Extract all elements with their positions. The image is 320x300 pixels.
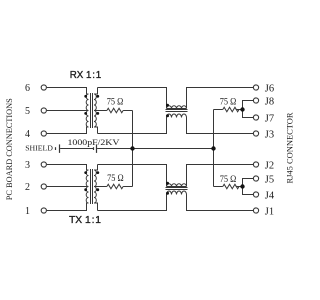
wire shield to capacitor C1 [60,148,93,150]
svg-text:J1: J1 [265,207,274,218]
choke L2 core [166,188,188,190]
shield pin mark [55,147,57,150]
transformer T2 secondary winding [94,170,96,203]
wire bus V2 to R4 [214,186,223,188]
resistor R1 75 ohm [107,108,123,113]
resistor R2 75 ohm [107,184,123,189]
svg-text:4: 4 [25,129,30,140]
polarity dot T1 secondary upper [96,95,99,98]
polarity dot T1 primary lower [84,112,87,115]
svg-text:75 Ω: 75 Ω [107,98,124,108]
wire bus V2 to R3 [214,109,223,111]
transformer T1 primary winding [86,94,88,127]
polarity dot choke L1 top [166,104,169,107]
node 3 (PC board pin 3 terminal) [41,162,46,167]
choke L1 bottom winding [167,114,187,117]
wire pin 4 to T1 primary bottom [47,127,89,134]
polarity dot choke L2 top [166,182,169,185]
svg-text:RX 1 : 1: RX 1 : 1 [70,69,102,81]
transformer T1 secondary bottom lead [94,127,98,134]
svg-text:J4: J4 [265,191,275,202]
svg-text:75 Ω: 75 Ω [220,98,237,108]
svg-text:1: 1 [25,206,30,217]
node J5 terminal [253,176,258,181]
wire T1 secondary bottom to choke L1 [98,118,167,134]
transformer T2 secondary bottom lead [94,203,98,211]
polarity dot T2 primary upper [84,171,87,174]
junction dot shield rail at bus V1 [130,146,134,150]
junction dot shield rail at bus V2 [211,146,215,150]
polarity dot T2 secondary upper [96,171,99,174]
svg-text:2: 2 [25,182,30,193]
node J3 terminal [253,131,258,136]
capacitor C1 right plate [96,144,98,153]
svg-text:J8: J8 [265,97,274,108]
wire pin 6 to T1 primary top [47,88,89,95]
transformer T1 secondary top lead [94,88,98,95]
wire R2 to center bus [123,186,132,188]
node J1 terminal [253,208,258,213]
node 6 (PC board pin 6 terminal) [41,85,46,90]
choke L1 top winding [167,106,187,109]
svg-text:J7: J7 [265,114,274,125]
wire choke L1 top to J6 [187,88,254,109]
node J8 terminal [253,98,258,103]
svg-text:5: 5 [25,106,30,117]
svg-text:75 Ω: 75 Ω [107,174,124,184]
wire junction to J5 [243,179,254,187]
wire junction to J8 [243,101,254,110]
svg-text:3: 3 [25,160,30,171]
choke L1 core [166,110,188,112]
node J4 terminal [253,192,258,197]
svg-text:1000pF/2KV: 1000pF/2KV [68,138,120,147]
svg-text:J5: J5 [265,175,274,186]
wire pin 1 to T2 primary bottom [47,203,89,211]
wire choke L2 top to J2 [187,165,254,187]
svg-text:J3: J3 [265,130,274,141]
wire T1 center tap to R1 [94,110,107,112]
polarity dot T2 secondary lower [96,188,99,191]
node 4 (PC board pin 4 terminal) [41,131,46,136]
wire T1 secondary top to choke L1 [98,88,167,109]
transformer T2 primary winding [86,170,88,203]
wire T2 secondary top to choke L2 [98,165,167,187]
wire T2 secondary bottom to choke L2 [98,195,167,211]
wire pin 3 to T2 primary top [47,165,89,171]
wire pin 5 to T1 primary center tap [47,110,89,112]
wire T2 center tap to R2 [94,186,107,188]
wire junction to J7 [243,110,254,118]
wire junction to J4 [243,187,254,195]
polarity dot T1 secondary lower [96,112,99,115]
wire R1 to center bus [123,110,132,112]
node 1 (PC board pin 1 terminal) [41,208,46,213]
junction dot R3 to J8 J7 [240,107,244,111]
wire pin 2 to T2 primary center tap [47,186,89,188]
node J2 terminal [253,162,258,167]
node 5 (PC board pin 5 terminal) [41,108,46,113]
transformer T1 core [91,93,93,128]
node J6 terminal [253,85,258,90]
wire right bus V2 [213,110,215,187]
svg-text:J6: J6 [265,84,274,95]
junction dot R4 to J5 J4 [240,184,244,188]
svg-text:J2: J2 [265,161,274,172]
node 2 (PC board pin 2 terminal) [41,184,46,189]
node J7 terminal [253,115,258,120]
wire R3 to junction [236,109,243,111]
transformer T2 secondary top lead [94,165,98,171]
svg-text:75 Ω: 75 Ω [220,175,237,185]
wire shield rail to bus V2 [97,148,213,150]
choke L2 top winding [167,184,187,187]
svg-text:SHIELD: SHIELD [25,144,53,153]
wire R4 to junction [236,186,243,188]
shield pin plate [59,144,61,153]
wire choke L1 bottom to J3 [187,118,254,134]
resistor R3 75 ohm [223,107,239,112]
transformer T2 core [91,169,93,204]
capacitor C1 left plate [93,147,95,150]
svg-text:PC BOARD CONNECTIONS: PC BOARD CONNECTIONS [5,98,14,200]
polarity dot choke L1 bottom [166,114,169,117]
resistor R4 75 ohm [223,184,239,189]
wire center bus V1 [132,111,134,187]
polarity dot T2 primary lower [84,188,87,191]
svg-text:RJ45 CONNECTOR: RJ45 CONNECTOR [286,112,295,184]
choke L2 bottom winding [167,191,187,195]
transformer T1 secondary winding [94,94,96,127]
polarity dot choke L2 bottom [166,192,169,195]
wire choke L2 bottom to J1 [187,195,254,211]
svg-text:6: 6 [25,83,30,94]
polarity dot T1 primary upper [84,95,87,98]
svg-text:TX 1 : 1: TX 1 : 1 [69,214,101,226]
